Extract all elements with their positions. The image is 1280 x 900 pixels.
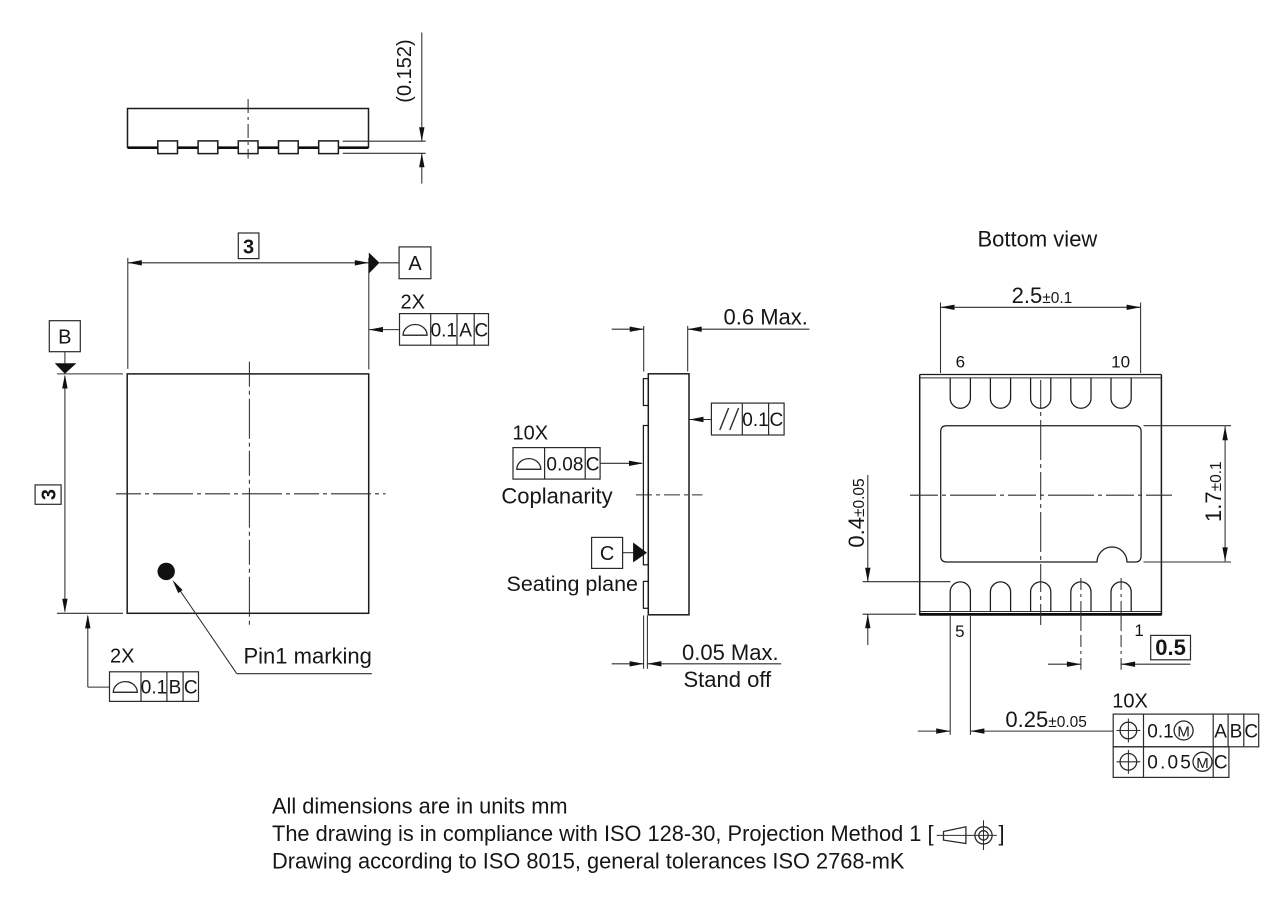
svg-text:B: B bbox=[169, 678, 182, 699]
svg-text:2X: 2X bbox=[110, 646, 134, 668]
dimension line 0.25 left segment bbox=[918, 730, 950, 732]
projection symbol circles bbox=[975, 827, 992, 844]
extension line top (left dim) bbox=[57, 373, 123, 375]
arrow up bbox=[62, 375, 67, 389]
vertical centerline bbox=[248, 362, 250, 626]
extension line bottom (0.4) bbox=[863, 613, 917, 615]
pin 2 slot (bottom) bbox=[1071, 582, 1091, 612]
fcf parallelism frame bbox=[711, 403, 784, 435]
svg-text:C: C bbox=[1214, 753, 1228, 774]
position tolerance table row 1 bbox=[1113, 714, 1259, 747]
M circle row2 bbox=[1193, 752, 1212, 771]
svg-text:10: 10 bbox=[1111, 353, 1130, 372]
dimension line (0.152) lower segment bbox=[421, 153, 423, 183]
package body (front side view) bbox=[128, 109, 369, 148]
dimension line 0.6 right segment bbox=[688, 328, 810, 330]
svg-text:0.05 Max.: 0.05 Max. bbox=[682, 640, 779, 665]
datum C box bbox=[592, 537, 623, 568]
svg-text:0.05: 0.05 bbox=[1147, 753, 1193, 774]
lead 2 (side view) bbox=[198, 141, 218, 154]
extension line left (0.6) bbox=[643, 326, 645, 372]
datum B stem bbox=[64, 352, 66, 364]
pin 1 slot (bottom) bbox=[1111, 582, 1131, 612]
lead 3 (side view) bbox=[238, 141, 258, 154]
svg-text:The drawing is in compliance w: The drawing is in compliance with ISO 12… bbox=[272, 821, 934, 846]
dimension line 3 (horizontal) bbox=[128, 262, 369, 264]
svg-text:10X: 10X bbox=[513, 423, 549, 445]
svg-text:3: 3 bbox=[38, 489, 60, 500]
BOTTOM-VIEW bbox=[844, 227, 1259, 778]
datum C leader bbox=[623, 552, 634, 554]
M circle row1 bbox=[1174, 721, 1193, 740]
pin 6 slot bbox=[950, 378, 970, 408]
lead 1 (side view) bbox=[158, 141, 178, 154]
arrow right bbox=[355, 260, 369, 265]
position tolerance table row 2 bbox=[1113, 747, 1229, 778]
svg-text:0.1: 0.1 bbox=[742, 410, 768, 431]
pin 4 slot (bottom) bbox=[990, 582, 1010, 612]
arrow down at lead top bbox=[419, 127, 424, 141]
extension line right (2.5) bbox=[1140, 303, 1142, 374]
dimension line 0.5 pitch right segment bbox=[1121, 663, 1190, 665]
svg-text:C: C bbox=[184, 678, 198, 699]
parallelism symbol bbox=[720, 408, 729, 430]
surface profile symbol bbox=[517, 459, 541, 470]
svg-text:M: M bbox=[1196, 755, 1209, 772]
lead tab bottom bbox=[643, 581, 648, 608]
horizontal centerline bbox=[116, 493, 386, 495]
svg-text:M: M bbox=[1177, 724, 1190, 741]
svg-text:(0.152): (0.152) bbox=[394, 39, 416, 102]
centerline (side view) bbox=[636, 494, 703, 496]
horizontal centerline bbox=[910, 494, 1172, 496]
package outline sides bbox=[919, 375, 921, 616]
pin 3 slot (bottom) bbox=[1031, 582, 1051, 612]
position symbol row1 bbox=[1120, 722, 1137, 739]
svg-text:]: ] bbox=[999, 821, 1005, 846]
datum A triangle bbox=[369, 253, 380, 274]
svg-text:C: C bbox=[770, 410, 784, 431]
package body (top view square) bbox=[127, 374, 369, 613]
svg-text:0.1: 0.1 bbox=[1147, 721, 1173, 742]
arrow up to bottom edge bbox=[85, 614, 90, 628]
extension line top (1.7) bbox=[1144, 425, 1232, 427]
boxed dimension 0.5 bbox=[1151, 635, 1191, 659]
pin2 centerline bbox=[1080, 578, 1082, 670]
boxed dimension 3 bbox=[238, 233, 259, 259]
dimension line 0.5 pitch left segment bbox=[1048, 663, 1081, 665]
package top edge inner bbox=[920, 377, 1162, 379]
svg-text:All dimensions are in units mm: All dimensions are in units mm bbox=[272, 793, 568, 818]
SIDE-VIEW-TOP bbox=[128, 33, 426, 184]
projection method symbol cone bbox=[944, 827, 966, 844]
package body (side view) bbox=[648, 374, 689, 615]
fcf coplanarity leader arrow bbox=[600, 462, 642, 464]
package bottom edge outer (seating, thick) bbox=[920, 613, 1162, 616]
position symbol row2 bbox=[1120, 754, 1137, 771]
svg-text:B: B bbox=[58, 327, 71, 349]
svg-text:A: A bbox=[1214, 721, 1227, 742]
svg-text:Pin1 marking: Pin1 marking bbox=[244, 644, 372, 669]
dimension line 0.25 right segment bbox=[970, 730, 1113, 732]
extension line right (stand off) bbox=[646, 616, 648, 669]
arrow down bbox=[62, 599, 67, 613]
FOOTER bbox=[272, 793, 1005, 873]
svg-text:Bottom view: Bottom view bbox=[978, 227, 1098, 252]
lead 4 (side view) bbox=[279, 141, 299, 154]
pin 5 slot (bottom) bbox=[950, 582, 970, 612]
fcf parallelism leader arrow bbox=[690, 419, 712, 421]
svg-text:3: 3 bbox=[243, 236, 254, 258]
boxed dimension 3 rotated bbox=[35, 485, 61, 504]
extension line left (stand off) bbox=[643, 616, 645, 669]
arrow left bbox=[128, 260, 142, 265]
svg-text:Stand off: Stand off bbox=[684, 667, 773, 692]
fcf profile 0.1 A C : leader arrow bbox=[369, 329, 400, 331]
svg-text:1: 1 bbox=[1134, 621, 1143, 640]
package top edge outer bbox=[920, 374, 1162, 376]
fcf profile 0.1 A C : frame bbox=[400, 314, 489, 346]
pin 8 slot bbox=[1031, 378, 1051, 408]
surface profile symbol bbox=[113, 682, 137, 693]
svg-text:C: C bbox=[474, 321, 488, 342]
svg-text:0.6 Max.: 0.6 Max. bbox=[724, 305, 808, 330]
fcf coplanarity frame bbox=[513, 448, 600, 480]
dimension line 0.05 left segment bbox=[612, 663, 644, 665]
extension line bottom (1.7) bbox=[1144, 561, 1232, 563]
extension line bottom (left dim) bbox=[57, 612, 123, 614]
package bottom edge inner bbox=[920, 611, 1162, 613]
datum A leader bbox=[379, 262, 399, 264]
pin1 centerline bbox=[1120, 578, 1122, 670]
svg-text:C: C bbox=[586, 454, 600, 475]
dimension line 0.4 upper segment bbox=[867, 475, 869, 582]
svg-text:A: A bbox=[459, 321, 472, 342]
dimension line 0.6 left segment bbox=[612, 328, 644, 330]
SIDE-VIEW-MID bbox=[501, 305, 809, 693]
datum B triangle bbox=[55, 363, 77, 374]
extension line right (0.6) bbox=[687, 326, 689, 372]
extension line left (0.25 pin width) bbox=[949, 616, 951, 735]
svg-text:A: A bbox=[408, 253, 422, 275]
pin1 leader line bbox=[175, 583, 237, 674]
pin1 leader arrowhead bbox=[173, 580, 183, 593]
pin 9 slot bbox=[1071, 378, 1091, 408]
vertical centerline bbox=[247, 99, 249, 159]
svg-text:0.5: 0.5 bbox=[1155, 635, 1186, 660]
leader to bottom edge (2X fcf) bbox=[87, 616, 89, 687]
svg-text:Coplanarity: Coplanarity bbox=[501, 483, 612, 508]
svg-text:0.1: 0.1 bbox=[141, 678, 167, 699]
TOP-VIEW bbox=[35, 233, 488, 701]
pin 7 slot bbox=[990, 378, 1010, 408]
svg-text:10X: 10X bbox=[1112, 691, 1148, 713]
fcf profile 0.1 B C : frame bbox=[110, 672, 199, 702]
extension line left (2.5) bbox=[940, 303, 942, 374]
dimension line 0.05 right segment bbox=[647, 663, 781, 665]
dimension line 2.5 bbox=[941, 306, 1141, 308]
pin1 marking dot bbox=[158, 563, 175, 580]
extension line left (top dim) bbox=[127, 258, 129, 369]
dimension line (0.152) upper segment bbox=[421, 33, 423, 142]
extension line lead bottom bbox=[343, 152, 426, 154]
svg-text:B: B bbox=[1230, 721, 1243, 742]
dimension line 1.7 bbox=[1224, 426, 1226, 561]
svg-text:6: 6 bbox=[956, 353, 965, 372]
lead 5 (side view) bbox=[319, 141, 339, 154]
dimension line 3 (vertical) bbox=[64, 376, 66, 611]
pin 10 slot bbox=[1111, 378, 1131, 408]
svg-text:Drawing according to ISO 8015,: Drawing according to ISO 8015, general t… bbox=[272, 848, 905, 873]
lead tab top bbox=[643, 379, 648, 406]
extension line right (0.25 pin width) bbox=[969, 616, 971, 735]
svg-text:C: C bbox=[600, 543, 614, 565]
dimension line 0.4 lower segment bbox=[867, 614, 869, 645]
extension line right (top dim) bbox=[368, 258, 370, 370]
svg-text:2X: 2X bbox=[401, 292, 425, 314]
projection symbol vertical centerline bbox=[983, 820, 985, 850]
datum A box bbox=[399, 247, 431, 279]
svg-text:0.08: 0.08 bbox=[546, 454, 583, 475]
svg-text:C: C bbox=[1244, 721, 1258, 742]
surface profile symbol bbox=[403, 325, 427, 336]
seating line (thick bottom edge) bbox=[128, 146, 369, 149]
exposed pad with notch bbox=[941, 426, 1141, 562]
svg-text:Seating plane: Seating plane bbox=[507, 572, 639, 596]
datum B box bbox=[49, 321, 80, 352]
extension line lead top bbox=[343, 140, 426, 142]
projection symbol horizontal centerline bbox=[937, 834, 997, 836]
lead tab middle bbox=[643, 426, 648, 565]
svg-text:0.1: 0.1 bbox=[431, 321, 457, 342]
arrow up at lead bottom bbox=[419, 153, 424, 167]
extension line top (0.4) bbox=[863, 581, 951, 583]
datum C triangle bbox=[633, 543, 647, 563]
svg-text:5: 5 bbox=[955, 622, 964, 641]
vertical centerline bbox=[1040, 380, 1042, 625]
